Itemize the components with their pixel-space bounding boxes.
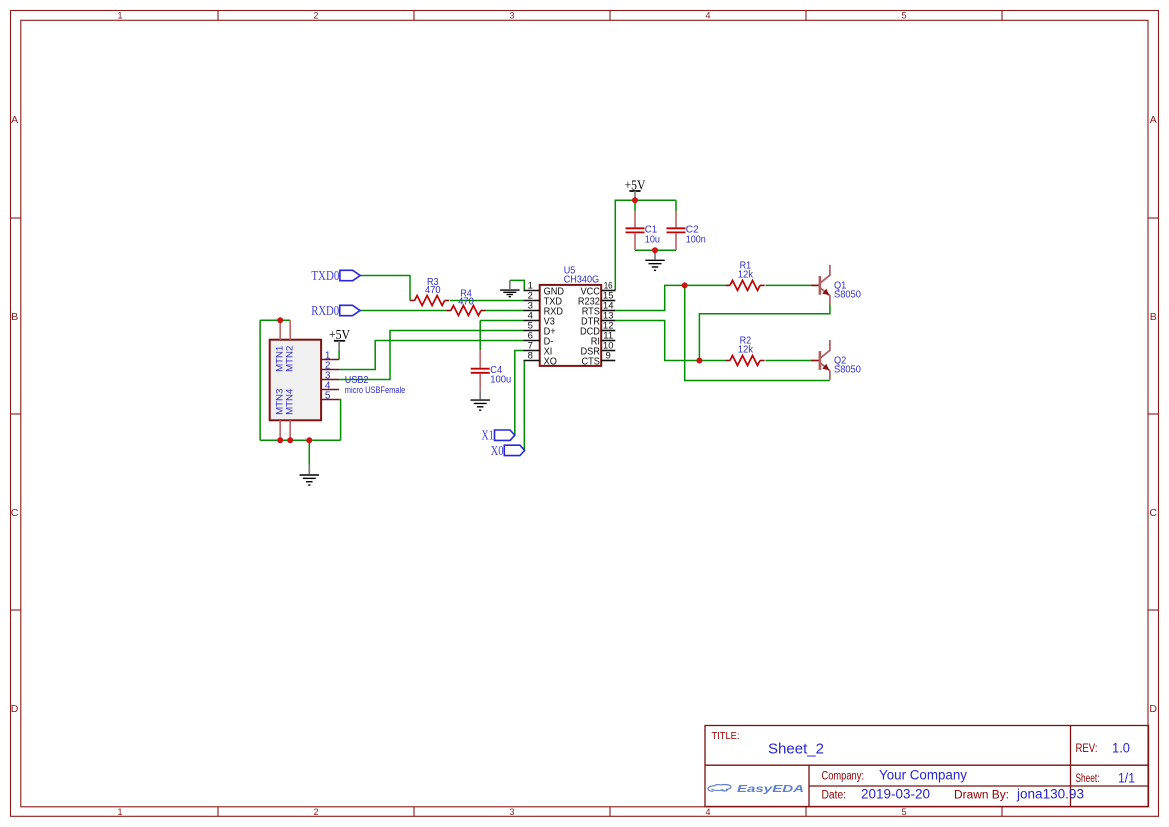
svg-text:A: A <box>11 114 18 126</box>
USB2 pin 4 <box>321 389 339 391</box>
U5 pin 4 V3 <box>524 320 540 322</box>
capacitor C4 <box>471 321 512 391</box>
wire U5 pin14 RTS to R1 <box>615 285 725 310</box>
svg-text:D: D <box>1149 703 1157 715</box>
svg-text:jona130.93: jona130.93 <box>1016 787 1084 802</box>
USB2 pin 3 <box>321 379 339 381</box>
capacitor C2 <box>667 200 706 250</box>
wire R3 to U5 pin2 TXD <box>450 300 524 302</box>
U5 pin 11 RI <box>601 340 615 342</box>
svg-text:C: C <box>11 507 19 519</box>
U5 pin 12 DCD <box>601 330 615 332</box>
U5 pin 14 RTS <box>601 310 615 312</box>
junction MTN3 bottom <box>277 437 283 443</box>
svg-text:X1: X1 <box>481 428 493 443</box>
wire R2 to Q2 base <box>765 360 810 362</box>
svg-text:12k: 12k <box>738 343 754 355</box>
IC U5 CH340G <box>524 264 616 367</box>
wire USB pin5 to bottom <box>339 400 341 441</box>
svg-text:Your Company: Your Company <box>879 768 967 783</box>
resistor R2 <box>725 334 764 365</box>
USB2 pin 2 <box>321 369 339 371</box>
U5 pin 2 TXD <box>524 300 540 302</box>
U5 pin 10 DSR <box>601 350 615 352</box>
svg-text:5: 5 <box>325 390 331 401</box>
svg-text:B: B <box>1150 311 1157 323</box>
wire Q1 emitter to R2 node <box>699 305 830 361</box>
svg-text:5: 5 <box>901 807 906 817</box>
junction R2 row <box>696 358 702 364</box>
svg-text:D: D <box>11 703 19 715</box>
svg-text:MTN2: MTN2 <box>285 346 296 372</box>
U5 pin 5 D+ <box>524 330 540 332</box>
wire U5 pin1 GND jog to ground <box>510 280 525 290</box>
wire C1-C2 bottom rail <box>635 249 676 251</box>
wire USB left side <box>259 320 261 440</box>
U5 pin 9 CTS <box>601 360 615 362</box>
svg-text:1/1: 1/1 <box>1118 771 1135 786</box>
svg-text:12k: 12k <box>738 268 754 280</box>
svg-text:MTN4: MTN4 <box>285 389 296 415</box>
ground below C1 C2 <box>645 250 665 270</box>
wire USB MTN top <box>260 319 290 321</box>
wire U5 pin13 DTR to R2 <box>615 321 725 361</box>
svg-text:Sheet:: Sheet: <box>1076 773 1100 785</box>
ground below C4 <box>470 390 490 410</box>
svg-text:REV:: REV: <box>1076 743 1098 755</box>
connector USB2 micro USB female <box>270 320 406 440</box>
junction at +5V C1 <box>632 197 638 203</box>
svg-text:3: 3 <box>509 10 514 20</box>
EasyEDA logo <box>708 784 804 795</box>
net flag TXD0 <box>311 268 360 283</box>
power +5V top <box>625 178 646 200</box>
svg-text:4: 4 <box>705 10 710 20</box>
U5 pin 8 XO <box>524 360 540 362</box>
transistor Q2 <box>811 340 861 380</box>
svg-text:micro USBFemale: micro USBFemale <box>345 385 406 395</box>
svg-text:100u: 100u <box>490 374 511 386</box>
resistor R1 <box>725 259 764 290</box>
USB2 body <box>270 340 321 421</box>
USB2 pin 1 <box>321 359 339 361</box>
svg-text:100n: 100n <box>686 233 706 245</box>
svg-text:EasyEDA: EasyEDA <box>737 784 804 795</box>
resistor R3 <box>410 276 449 305</box>
wire C4 to U5 pin4 V3 <box>480 320 523 322</box>
wire USB bottom <box>260 439 341 441</box>
U5 pin 1 GND <box>524 290 540 292</box>
svg-text:A: A <box>1150 114 1157 126</box>
wire Q2 emitter to R1 node <box>685 285 830 380</box>
USB2 pin 5 <box>321 399 339 401</box>
svg-text:3: 3 <box>509 807 514 817</box>
capacitor C1 <box>626 200 661 250</box>
svg-text:X0: X0 <box>491 443 504 458</box>
svg-text:5: 5 <box>901 10 906 20</box>
wire TXD0 to R3 <box>361 276 411 301</box>
svg-text:8: 8 <box>528 350 533 361</box>
svg-text:CTS: CTS <box>582 355 600 367</box>
wire USB pin3 to U5 pin5 D+ <box>339 331 523 380</box>
ground near U5 pin1 <box>500 280 520 296</box>
U5 body <box>540 285 602 366</box>
junction R1 row <box>682 282 688 288</box>
svg-text:C: C <box>1149 507 1157 519</box>
USB2 pin MTN4 <box>289 420 291 440</box>
svg-text:1.0: 1.0 <box>1112 741 1130 756</box>
U5 pin 16 VCC <box>601 290 615 292</box>
wire U5 pin8 XO to flag X0 <box>523 361 525 451</box>
junction MTN4 bottom <box>287 437 293 443</box>
U5 pin 15 R232 <box>601 300 615 302</box>
wire USB pin2 to U5 pin6 D- <box>339 341 523 370</box>
U5 pin 6 D- <box>524 340 540 342</box>
svg-text:1: 1 <box>117 10 122 20</box>
svg-text:TXD0: TXD0 <box>311 268 339 283</box>
wire U5 pin7 XI to flag X1 <box>515 351 524 436</box>
svg-text:XO: XO <box>544 355 557 367</box>
wire +5V rail to U5 pin16 VCC <box>615 200 676 290</box>
net flag RXD0 <box>311 303 360 318</box>
svg-text:S8050: S8050 <box>834 289 861 301</box>
wire R4 to U5 pin3 RXD <box>486 310 524 312</box>
net flag X1 <box>481 428 514 443</box>
svg-text:2: 2 <box>313 10 318 20</box>
junction at C1 C2 ground <box>652 247 658 253</box>
svg-text:9: 9 <box>606 350 611 361</box>
resistor R4 <box>446 287 485 315</box>
svg-text:470: 470 <box>458 295 474 307</box>
svg-text:Date:: Date: <box>822 790 847 802</box>
svg-text:CH340G: CH340G <box>564 273 599 285</box>
svg-text:2019-03-20: 2019-03-20 <box>861 787 930 802</box>
svg-text:TITLE:: TITLE: <box>712 730 740 742</box>
transistor Q1 <box>811 265 861 305</box>
title block <box>705 726 1149 807</box>
svg-text:S8050: S8050 <box>834 364 861 376</box>
USB2 pin MTN3 <box>279 420 281 440</box>
svg-text:4: 4 <box>705 807 710 817</box>
USB2 pin MTN2 <box>289 320 291 340</box>
junction MTN1 top <box>277 317 283 323</box>
svg-text:2: 2 <box>313 807 318 817</box>
net flag X0 <box>491 443 525 458</box>
ground below USB <box>300 465 320 485</box>
svg-text:Sheet_2: Sheet_2 <box>768 742 824 758</box>
USB2 pin MTN1 <box>279 320 281 340</box>
svg-text:Company:: Company: <box>822 771 865 783</box>
power +5V at USB pin1 <box>329 328 350 360</box>
svg-text:RXD0: RXD0 <box>311 303 339 318</box>
svg-text:470: 470 <box>425 284 441 296</box>
svg-text:1: 1 <box>117 807 122 817</box>
svg-text:10u: 10u <box>645 233 660 245</box>
U5 pin 7 XI <box>524 350 540 352</box>
wire RXD0 to R4 <box>360 310 446 312</box>
wire R1 to Q1 base <box>765 284 810 286</box>
U5 pin 3 RXD <box>524 310 540 312</box>
junction USB ground <box>306 437 312 443</box>
wire USB ground stub <box>308 440 310 465</box>
svg-text:B: B <box>11 311 18 323</box>
U5 pin 13 DTR <box>601 320 615 322</box>
svg-text:Drawn By:: Drawn By: <box>954 790 1009 802</box>
